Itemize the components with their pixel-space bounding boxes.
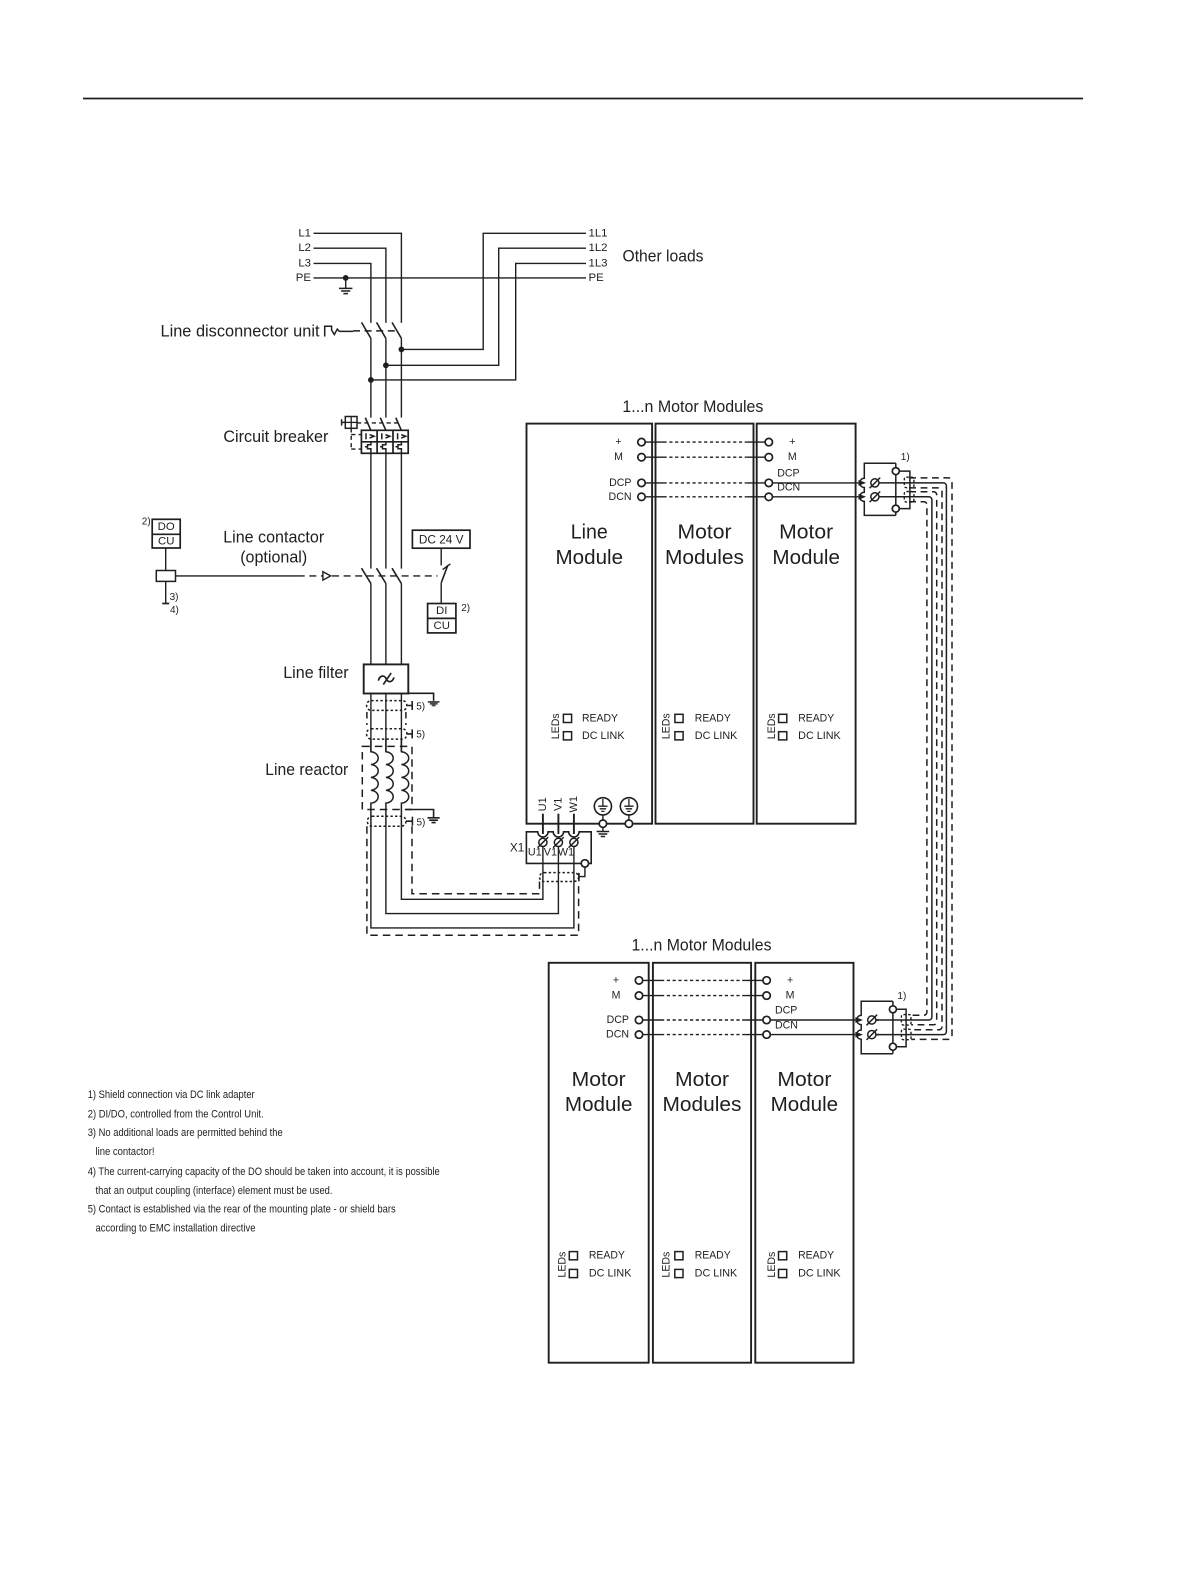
wire 1L2 <box>386 248 586 365</box>
X1 pin W1 <box>573 814 575 834</box>
svg-text:M: M <box>612 990 621 1002</box>
svg-text:READY: READY <box>798 1250 834 1262</box>
wire filter PE to chassis ground <box>408 693 433 701</box>
svg-text:Module: Module <box>772 546 840 569</box>
svg-text:W1: W1 <box>568 796 580 813</box>
svg-text:DC LINK: DC LINK <box>798 1268 841 1280</box>
wire reactor PE to ground <box>406 810 434 818</box>
disconnector switch pole 3 <box>392 322 401 338</box>
Line Module box <box>527 424 653 824</box>
LED READY <box>675 714 683 722</box>
terminal M right <box>765 454 772 461</box>
svg-text:Line filter: Line filter <box>283 664 349 682</box>
wire L3 filter to reactor <box>370 694 372 752</box>
junction L3 out <box>368 377 374 383</box>
adapter screw DCN (bottom) <box>867 1029 878 1040</box>
svg-text:DCN: DCN <box>606 1029 629 1041</box>
wire 1L1 <box>401 233 586 349</box>
terminal M right <box>763 992 770 999</box>
line filter box <box>364 664 409 693</box>
breaker switch pole 2 <box>380 418 386 431</box>
wire L2 to breaker <box>385 338 387 417</box>
breaker overcurrent trip I> pole 1 <box>366 433 374 439</box>
svg-text:U1: U1 <box>537 797 549 811</box>
svg-text:DCP: DCP <box>775 1005 797 1017</box>
svg-text:X1: X1 <box>510 840 524 854</box>
wire L3 to breaker <box>370 338 372 417</box>
svg-text:1...n Motor Modules: 1...n Motor Modules <box>632 937 772 955</box>
shield clamp 3 <box>367 816 406 826</box>
svg-text:L1: L1 <box>298 227 311 239</box>
svg-text:4) The current-carrying capaci: 4) The current-carrying capacity of the … <box>88 1166 440 1178</box>
wire coil to supply tick <box>165 581 167 603</box>
svg-text:DC LINK: DC LINK <box>589 1268 632 1280</box>
LED DC LINK <box>779 732 787 740</box>
svg-text:DC LINK: DC LINK <box>695 730 738 742</box>
wire L1 to breaker <box>400 338 402 417</box>
svg-text:1): 1) <box>897 991 906 1002</box>
wire L2 filter to reactor <box>385 694 387 752</box>
LED READY <box>779 1252 787 1260</box>
cable DCN shield lower <box>909 502 927 1015</box>
LED READY <box>779 714 787 722</box>
svg-text:2): 2) <box>461 603 470 614</box>
svg-text:+: + <box>789 436 795 448</box>
Motor Modules middle box (top group) <box>656 424 754 824</box>
svg-text:DC LINK: DC LINK <box>582 730 625 742</box>
adapter screw DCN (top) <box>870 492 881 503</box>
shield run dashes <box>367 712 406 725</box>
X1 pin V1 <box>557 814 559 834</box>
svg-text:DI: DI <box>436 605 447 617</box>
terminal DCN right <box>765 493 772 500</box>
reactor winding L2 <box>386 739 393 826</box>
LED READY <box>675 1252 683 1260</box>
shield clamp 2 <box>367 729 407 739</box>
Motor Modules middle box (bottom group) <box>653 963 751 1363</box>
wire PE <box>314 277 587 279</box>
adapter clamp DCP (top) <box>904 477 914 488</box>
reactor winding L1 <box>371 739 378 826</box>
terminal DCN right <box>763 1031 770 1038</box>
terminal + right <box>765 438 772 445</box>
DCN wire to adapter (top) <box>773 496 859 498</box>
svg-text:+: + <box>787 974 793 986</box>
DI/CU box (Control Unit digital input) <box>428 604 456 633</box>
wire PE pin to ground <box>602 827 604 831</box>
DCP wire to adapter (bottom) <box>770 1019 855 1021</box>
wire L1 to contactor <box>400 453 402 568</box>
LED DC LINK <box>563 732 571 740</box>
svg-text:W1: W1 <box>558 846 574 858</box>
svg-text:4): 4) <box>170 605 179 616</box>
dc link bus DCN <box>643 1034 661 1036</box>
svg-text:5): 5) <box>416 701 425 712</box>
svg-text:L2: L2 <box>298 242 311 254</box>
svg-text:1...n Motor Modules: 1...n Motor Modules <box>622 398 763 416</box>
dc link bus + <box>645 441 663 443</box>
svg-text:Motor: Motor <box>675 1068 729 1091</box>
LED DC LINK <box>675 1269 683 1277</box>
contactor coil K1 <box>156 571 175 582</box>
breaker switch pole 1 <box>365 418 371 431</box>
dc link bus M <box>645 456 663 458</box>
svg-text:Module: Module <box>556 546 624 569</box>
header rule <box>83 98 1083 100</box>
svg-text:LEDs: LEDs <box>661 1252 673 1278</box>
svg-text:CU: CU <box>158 536 174 548</box>
ground at reactor <box>428 818 440 823</box>
junction L1 out <box>399 347 405 353</box>
wire aux contact to DI <box>440 583 442 604</box>
svg-text:READY: READY <box>582 712 618 724</box>
svg-text:L3: L3 <box>298 257 311 269</box>
contactor main pole 1 <box>362 568 371 583</box>
svg-text:M: M <box>788 451 797 463</box>
svg-text:U1: U1 <box>528 846 542 858</box>
DC link adapter (top) body <box>860 463 896 515</box>
svg-text:LEDs: LEDs <box>766 1252 778 1278</box>
wire L2 to filter <box>385 584 387 665</box>
svg-text:LEDs: LEDs <box>766 713 778 739</box>
svg-text:Motor: Motor <box>779 521 833 544</box>
breaker body <box>361 430 408 453</box>
terminal DCP right <box>765 479 772 486</box>
X1 screw terminal U1 <box>538 837 549 848</box>
supply tick <box>162 603 169 605</box>
svg-text:DCN: DCN <box>609 491 632 503</box>
chassis ground at filter <box>428 702 440 706</box>
Motor Module right box (top group) <box>757 424 856 824</box>
protective earth symbol <box>594 798 611 820</box>
dc link bus DCP <box>643 1019 661 1021</box>
svg-text:V1: V1 <box>552 798 564 811</box>
disconnector switch pole 2 <box>377 322 386 338</box>
svg-text:Line: Line <box>571 521 608 544</box>
svg-text:Module: Module <box>771 1093 839 1116</box>
contactor coil mechanical link <box>176 575 298 577</box>
X1 screw terminal V1 <box>553 837 564 848</box>
reactor winding L3 <box>401 739 408 826</box>
svg-text:2): 2) <box>142 516 151 527</box>
wire W1 feed (L3) <box>371 826 574 928</box>
adapter clamp DCN (bottom) <box>901 1029 911 1040</box>
svg-text:M: M <box>786 990 795 1002</box>
wire L3 to contactor <box>370 453 372 568</box>
svg-text:+: + <box>613 974 619 986</box>
LED DC LINK <box>675 732 683 740</box>
breaker thermal trip pole 2 <box>380 442 386 454</box>
svg-text:Modules: Modules <box>665 546 744 569</box>
DO/CU box (Control Unit digital output) <box>152 519 180 548</box>
wire DO to contactor coil <box>165 548 167 571</box>
X1 screw terminal W1 <box>569 837 580 848</box>
LED DC LINK <box>779 1269 787 1277</box>
cable DCN shield upper <box>909 492 937 1025</box>
DCN wire to adapter (bottom) <box>770 1034 855 1036</box>
svg-text:Motor: Motor <box>678 521 732 544</box>
svg-text:PE: PE <box>589 272 605 284</box>
svg-text:Module: Module <box>565 1093 633 1116</box>
adapter clamp DCN (top) <box>904 492 914 503</box>
LED READY <box>569 1252 577 1260</box>
svg-text:DC 24 V: DC 24 V <box>419 532 464 546</box>
dc link bus M <box>643 995 661 997</box>
breaker manual actuator crossed box <box>342 417 357 429</box>
svg-text:Circuit breaker: Circuit breaker <box>223 428 328 446</box>
svg-text:READY: READY <box>695 712 731 724</box>
svg-text:LEDs: LEDs <box>550 713 562 739</box>
svg-text:Motor: Motor <box>777 1068 831 1091</box>
svg-text:READY: READY <box>589 1250 625 1262</box>
svg-text:DCP: DCP <box>609 477 631 489</box>
wire U1 feed (L1) <box>401 826 543 899</box>
ground at Line Module PE <box>597 832 610 837</box>
dc link bus DCN <box>645 496 663 498</box>
dc link bus DCP <box>645 482 663 484</box>
svg-text:Line contactor: Line contactor <box>223 528 324 546</box>
wire V1 feed (L2) <box>386 826 559 913</box>
svg-text:3): 3) <box>170 592 179 603</box>
svg-text:1L1: 1L1 <box>589 227 608 239</box>
LED READY <box>563 714 571 722</box>
wire L2 <box>314 248 386 323</box>
svg-text:Other loads: Other loads <box>623 248 704 266</box>
cable shield inner dashed run <box>412 826 540 894</box>
PE pin circle <box>625 820 632 827</box>
adapter shield circles and bracket (bottom) <box>889 1006 896 1013</box>
svg-text:CU: CU <box>433 620 449 632</box>
adapter clamp DCP (bottom) <box>901 1015 911 1026</box>
cable shield outer dashed run <box>367 826 579 935</box>
svg-text:5): 5) <box>417 818 426 829</box>
DC link adapter (bottom) body <box>857 1001 893 1054</box>
svg-text:Line disconnector unit: Line disconnector unit <box>161 322 320 340</box>
svg-text:LEDs: LEDs <box>556 1252 568 1278</box>
cable DCP core <box>876 483 947 1035</box>
line reactor dashed enclosure <box>362 746 412 809</box>
Motor Module left box (bottom group) <box>549 963 649 1363</box>
adapter screw DCP (top) <box>870 478 881 489</box>
protective earth symbol <box>620 798 637 820</box>
svg-text:1L2: 1L2 <box>589 242 608 254</box>
wire X1 shield to clamp4 <box>579 867 585 876</box>
svg-text:READY: READY <box>695 1250 731 1262</box>
PE pin circle <box>599 820 606 827</box>
svg-text:V1: V1 <box>544 846 557 858</box>
svg-text:LEDs: LEDs <box>661 713 673 739</box>
svg-text:Line reactor: Line reactor <box>265 761 348 779</box>
junction PE <box>343 275 349 281</box>
svg-text:DC LINK: DC LINK <box>695 1268 738 1280</box>
breaker switch pole 3 <box>396 418 402 431</box>
wire L3 to filter <box>370 584 372 665</box>
breaker overcurrent trip I> pole 2 <box>382 433 390 439</box>
junction L2 out <box>383 362 389 368</box>
wire cable DCP into screw (bottom) <box>876 1019 879 1021</box>
disconnector switch pole 1 <box>362 322 371 338</box>
clamp 4 bar <box>578 873 580 881</box>
cable DCP shield lower <box>909 488 942 1030</box>
Motor Module right box (bottom group) <box>755 963 853 1363</box>
wire L1 filter to reactor <box>400 694 402 752</box>
breaker thermal trip pole 3 <box>396 442 402 454</box>
DCP wire to adapter (top) <box>773 482 859 484</box>
X1 terminal block body <box>526 832 591 864</box>
svg-text:3) No additional loads are per: 3) No additional loads are permitted beh… <box>88 1127 283 1139</box>
disconnector actuator dashed link <box>353 330 397 332</box>
svg-text:5) Contact is established via: 5) Contact is established via the rear o… <box>88 1204 396 1216</box>
svg-text:DC LINK: DC LINK <box>798 730 841 742</box>
ground at PE <box>345 278 347 289</box>
svg-text:1): 1) <box>901 452 910 463</box>
svg-text:line contactor!: line contactor! <box>96 1146 155 1158</box>
svg-text:according to EMC installation: according to EMC installation directive <box>96 1222 256 1234</box>
wire 1L3 <box>371 263 586 380</box>
wire L3 <box>314 263 371 323</box>
X1 shield PE circle <box>581 860 588 867</box>
svg-text:5): 5) <box>416 730 425 741</box>
X1 pin U1 <box>542 814 544 834</box>
DC 24 V box <box>412 530 470 548</box>
svg-text:M: M <box>614 451 623 463</box>
svg-text:DCN: DCN <box>775 1019 798 1031</box>
contactor main pole 2 <box>377 568 386 583</box>
svg-text:PE: PE <box>296 272 312 284</box>
wire L1 <box>314 233 402 323</box>
shield clamp 4 under X1 <box>540 873 579 882</box>
contactor main pole 3 <box>392 568 401 583</box>
breaker thermal trip pole 1 <box>365 442 371 454</box>
adapter screw DCP (bottom) <box>867 1015 878 1026</box>
LED DC LINK <box>569 1269 577 1277</box>
svg-text:DO: DO <box>158 521 175 533</box>
svg-text:that an output coupling (inter: that an output coupling (interface) elem… <box>96 1185 333 1197</box>
svg-text:Modules: Modules <box>663 1093 742 1116</box>
cable DCP shield upper <box>909 478 952 1040</box>
wire DC24V to aux contact <box>440 548 442 565</box>
terminal + right <box>763 977 770 984</box>
filter symbol <box>378 676 394 682</box>
cable DCN core <box>876 497 932 1020</box>
terminal DCP right <box>763 1016 770 1023</box>
svg-text:2) DI/DO, controlled from the: 2) DI/DO, controlled from the Control Un… <box>88 1108 264 1120</box>
svg-text:(optional): (optional) <box>240 549 307 567</box>
wire L1 to filter <box>400 584 402 665</box>
svg-text:1) Shield connection via DC li: 1) Shield connection via DC link adapter <box>88 1089 255 1101</box>
svg-text:1L3: 1L3 <box>589 257 608 269</box>
adapter shield circles and bracket (top) <box>892 468 899 475</box>
mechanical link arrow <box>323 572 331 580</box>
contactor auxiliary contact <box>441 565 448 583</box>
svg-text:DCP: DCP <box>607 1014 629 1026</box>
shield clamp 1 <box>367 701 407 711</box>
wire L2 to contactor <box>385 453 387 568</box>
svg-text:READY: READY <box>798 712 834 724</box>
breaker actuator dashed links <box>357 422 398 424</box>
svg-text:DCP: DCP <box>777 468 799 480</box>
svg-text:+: + <box>615 436 621 448</box>
svg-text:Motor: Motor <box>572 1068 626 1091</box>
breaker overcurrent trip I> pole 3 <box>398 433 406 439</box>
disconnector handle icon <box>325 326 353 336</box>
dc link bus + <box>643 979 661 981</box>
